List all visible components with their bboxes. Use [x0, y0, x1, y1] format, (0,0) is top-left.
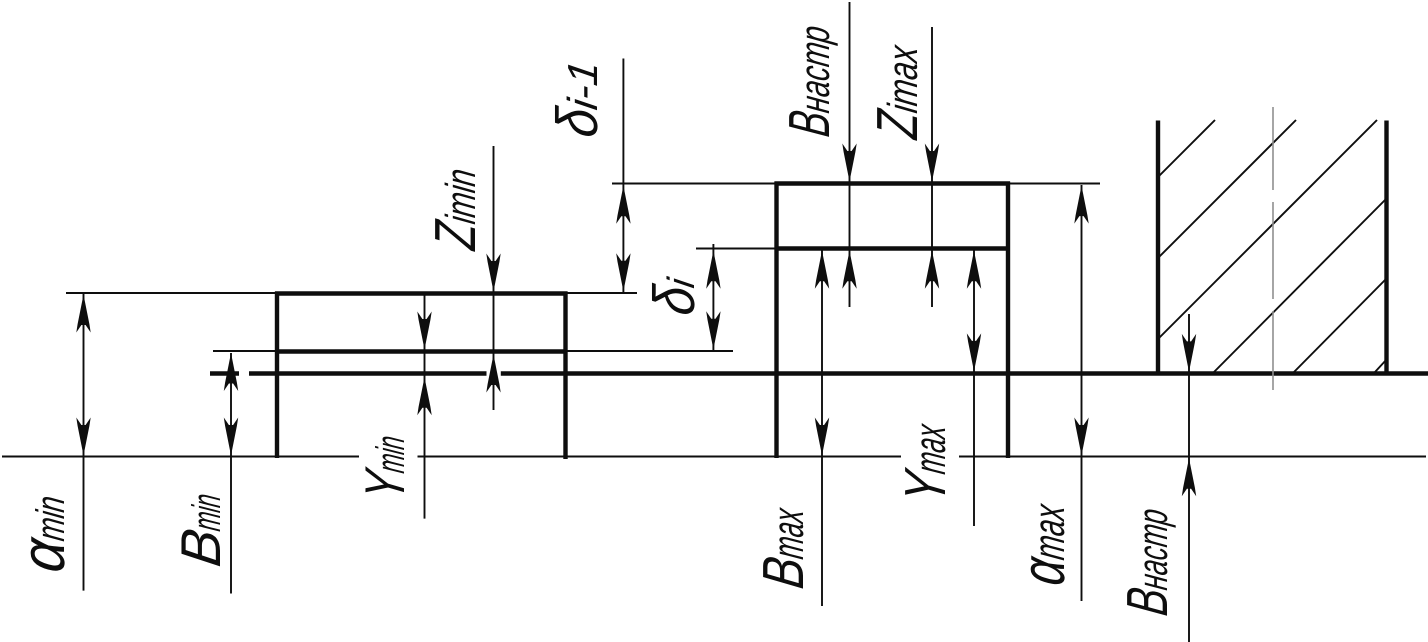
node setup (datum) line leading dash: [210, 371, 239, 375]
right block right edge: [1006, 182, 1010, 459]
dimension B_nastr bottom line with arrows: [1188, 314, 1190, 642]
dimension a_max line with arrows: [1081, 185, 1083, 601]
baseline break at Y_min label: [359, 454, 418, 459]
dimension delta_i-1 line with arrows: [622, 59, 624, 295]
dimension Z_imin line with arrows: [493, 146, 495, 410]
dimension Y_max line with arrows: [973, 250, 975, 526]
blank right edge: [1384, 121, 1388, 375]
datum line break at Z_imin: [487, 369, 501, 378]
left block right edge: [563, 292, 567, 460]
blank left edge: [1156, 121, 1160, 375]
blank hatch line 3: [1158, 120, 1377, 339]
left block left edge: [275, 292, 279, 459]
blank hatch line 1: [1158, 120, 1215, 177]
blank centerline (dash-dot): [1272, 107, 1274, 390]
dimension delta_i line with arrows: [712, 244, 714, 351]
dimension Z_imax line with arrows: [931, 27, 933, 307]
right block inner line: [777, 246, 1009, 250]
blank hatch line 5: [1294, 278, 1387, 372]
blank hatch line 6: [1375, 359, 1387, 372]
dimension B_min line with arrows: [230, 353, 232, 594]
wire extension line at B_max level (right block inner level): [696, 248, 1008, 250]
left block top edge: [275, 291, 568, 295]
dimension Y_min line with arrows: [424, 294, 426, 519]
node baseline (measurement base line): [2, 456, 1426, 458]
right block top edge: [775, 181, 1011, 185]
blank hatch line 4: [1214, 198, 1387, 372]
blank hatch line 2: [1158, 120, 1296, 258]
node setup (datum) line: [249, 371, 1428, 375]
wire extension line at B_min level (left block inner level): [213, 350, 733, 352]
dimension B_nastr top line with arrows: [849, 2, 851, 307]
left block inner line: [277, 349, 568, 353]
dimension a_min line with arrows: [83, 294, 85, 591]
right block left edge: [774, 182, 778, 459]
dimension B_max line with arrows: [821, 250, 823, 606]
baseline break at Y_max label: [901, 454, 959, 459]
wire extension line at a_max level (right block top level): [612, 183, 1100, 185]
wire extension line at a_min level (left block top level): [66, 292, 637, 294]
